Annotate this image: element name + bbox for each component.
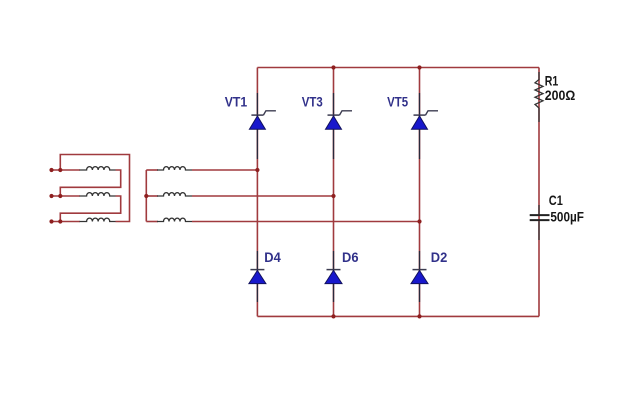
- primary winding B coil: [80, 193, 116, 196]
- wire secondary B left lead: [146, 195, 158, 197]
- junction primary A: [58, 168, 62, 172]
- wire bottom DC bus: [257, 315, 539, 317]
- capacitor C1: [530, 205, 550, 240]
- svg-text:D6: D6: [342, 249, 359, 265]
- junction phase B / VT3 branch: [331, 194, 335, 198]
- wire VT5/D2 branch vertical: [419, 68, 421, 317]
- svg-text:VT3: VT3: [302, 93, 323, 109]
- wire secondary star bus: [145, 170, 147, 222]
- diode D2: [411, 251, 428, 302]
- svg-text:VT1: VT1: [225, 93, 248, 109]
- junction bottom bus / D2 branch: [417, 314, 421, 318]
- diode D6: [325, 251, 342, 302]
- diode D4: [249, 251, 266, 302]
- junction bottom bus / D6 branch: [331, 314, 335, 318]
- primary winding C coil: [80, 218, 116, 221]
- svg-text:D4: D4: [264, 249, 281, 265]
- svg-text:500µF: 500µF: [550, 209, 584, 225]
- wire load branch vertical (right): [538, 68, 540, 317]
- secondary winding A coil: [157, 167, 192, 170]
- thyristor VT5: [412, 93, 439, 159]
- wire phase B to bridge: [192, 195, 334, 197]
- terminal node phase B: [49, 194, 53, 198]
- wire top DC bus: [257, 67, 539, 69]
- primary winding A coil: [80, 167, 116, 170]
- junction top bus / VT5 branch: [417, 65, 421, 69]
- thyristor VT3: [326, 93, 353, 159]
- wire primary terminal B stub: [52, 195, 81, 197]
- resistor R1: [535, 72, 543, 122]
- wire primary terminal A stub: [52, 169, 81, 171]
- junction primary C: [58, 219, 62, 223]
- wire primary terminal C stub: [52, 221, 81, 223]
- wire delta link: winding B end to phase C: [60, 196, 120, 222]
- secondary winding C coil: [157, 218, 192, 221]
- wire secondary C left lead: [146, 221, 158, 223]
- junction top bus / VT3 branch: [331, 65, 335, 69]
- wire VT3/D6 branch vertical: [333, 68, 335, 317]
- junction phase C / VT5 branch: [417, 219, 421, 223]
- svg-text:C1: C1: [549, 192, 563, 208]
- svg-text:D2: D2: [431, 249, 448, 265]
- wire delta link: winding C end to phase A (outer loop): [60, 155, 129, 222]
- junction phase A / VT1 branch: [255, 168, 259, 172]
- junction secondary star point: [144, 194, 148, 198]
- wire phase C to bridge: [192, 221, 420, 223]
- secondary winding B coil: [157, 193, 192, 196]
- svg-text:200Ω: 200Ω: [545, 87, 576, 103]
- wire delta link: winding A end to phase B: [60, 170, 120, 196]
- wire VT1/D4 branch vertical: [256, 68, 258, 317]
- thyristor VT1: [249, 93, 276, 159]
- wire phase A to bridge: [192, 169, 257, 171]
- wire secondary A left lead: [146, 169, 158, 171]
- svg-text:VT5: VT5: [387, 93, 408, 109]
- terminal node phase C: [49, 219, 53, 223]
- terminal node phase A: [49, 168, 53, 172]
- junction primary B: [58, 194, 62, 198]
